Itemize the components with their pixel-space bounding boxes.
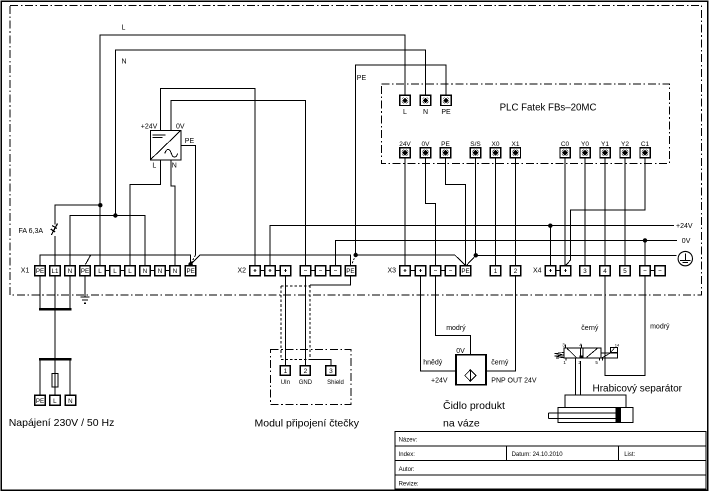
module terminal 2 — [300, 366, 310, 376]
svg-text:3: 3 — [562, 343, 565, 348]
PE bus diagonal into X3:PE — [467, 255, 476, 265]
terminal X1 L @100 — [95, 266, 105, 276]
junction dot X1:11 PE — [188, 262, 192, 266]
link X1 L5-L6 — [105, 270, 110, 272]
svg-text:L: L — [113, 268, 117, 275]
wire X4:1 from +24V bus — [549, 226, 551, 266]
svg-text:L: L — [128, 268, 132, 275]
wire X1:4 PE to earth — [84, 276, 86, 297]
svg-text:PLC Fatek FBs–20MC: PLC Fatek FBs–20MC — [500, 102, 597, 113]
svg-text:1: 1 — [284, 368, 288, 375]
svg-text:N: N — [158, 268, 162, 275]
wire PSU 0V to X2:4 — [171, 101, 306, 266]
svg-text:5: 5 — [595, 360, 598, 365]
svg-text:PE: PE — [81, 268, 89, 275]
terminal X3 1 @495.5 — [490, 266, 500, 276]
wire X1:1 PE down to connector — [39, 276, 41, 308]
terminal X2 - @320.4 — [315, 266, 325, 276]
link X1 N8-N9 — [150, 270, 155, 272]
terminal X4 + @565.3 — [560, 266, 570, 276]
svg-text:1: 1 — [494, 268, 498, 275]
link X1 N9-N10 — [165, 270, 170, 272]
cylinder body — [558, 408, 616, 423]
wire PLC PE(bottom) to X3:PE — [446, 158, 466, 266]
svg-text:1: 1 — [563, 360, 566, 365]
junction dot X2:PE — [354, 253, 358, 257]
link X1 L6-L7 — [120, 270, 125, 272]
PLC terminal N (top row) — [420, 95, 430, 105]
svg-text:L: L — [152, 162, 156, 169]
wire PLC Y0 to X4 box3 — [584, 158, 586, 266]
terminal X4 4 @605 — [600, 266, 610, 276]
cylinder piston — [616, 407, 621, 423]
svg-text:Index:: Index: — [399, 452, 416, 458]
wire plug N — [69, 361, 71, 396]
svg-text:X0: X0 — [492, 141, 500, 148]
svg-text:Hrabicový separátor: Hrabicový separátor — [593, 383, 683, 394]
svg-text:Y2: Y2 — [621, 141, 629, 148]
svg-text:X4: X4 — [533, 268, 542, 275]
svg-text:černý: černý — [491, 359, 509, 366]
terminal X3 - @435.5 — [430, 266, 440, 276]
cable shield (dashed) right — [309, 285, 311, 360]
wire PSU PE to PE bus — [181, 145, 196, 255]
wire X4:6 from 0V bus — [644, 240, 646, 265]
svg-text:0V: 0V — [682, 238, 691, 245]
title block row line 1 — [395, 445, 706, 447]
PE bus mid segment — [191, 255, 351, 266]
svg-text:N: N — [68, 268, 72, 275]
svg-text:Čidlo produkt: Čidlo produkt — [443, 399, 505, 412]
svg-text:na váze: na váze — [443, 417, 480, 429]
junction dot X3:PE/SS — [474, 253, 478, 257]
link X2 1-2 — [260, 270, 265, 272]
svg-text:N: N — [173, 268, 177, 275]
link X3 1-2 — [410, 270, 415, 272]
svg-text:PE: PE — [346, 268, 354, 275]
terminal X2 - @305.4 — [300, 266, 310, 276]
wire X1:2 L1 down to connector — [54, 276, 56, 308]
terminal X4 3 @585 — [580, 266, 590, 276]
plug terminal L — [50, 395, 60, 405]
svg-text:GND: GND — [299, 380, 313, 386]
svg-text:PE: PE — [186, 268, 194, 275]
svg-text:2: 2 — [304, 368, 308, 375]
svg-text:Název:: Název: — [399, 438, 418, 444]
terminal X2 PE @350.4 — [345, 266, 355, 276]
cylinder rod — [549, 413, 617, 418]
bus +24V — [270, 226, 674, 266]
svg-text:2: 2 — [514, 268, 518, 275]
junction dot 0V/X4:6 — [643, 238, 647, 242]
valve left cell arrow — [567, 349, 576, 358]
wire PLC 24V to X3:1 — [404, 158, 406, 266]
cable shield (dashed) left — [280, 286, 282, 360]
terminal X4 - @645 — [640, 266, 650, 276]
PE bus diagonal into X2:PE — [352, 255, 356, 265]
svg-text:24V: 24V — [399, 141, 411, 148]
svg-text:FA 6,3A: FA 6,3A — [19, 228, 44, 235]
svg-text:PE: PE — [36, 268, 44, 275]
svg-text:4: 4 — [603, 268, 607, 275]
plug terminal N — [65, 395, 75, 405]
pneumatic tube right — [580, 361, 582, 395]
wire PLC X0 to X3 box1 — [495, 158, 497, 266]
terminal X1 PE @85 — [80, 266, 90, 276]
svg-text:N: N — [122, 59, 127, 66]
svg-text:3: 3 — [329, 368, 333, 375]
svg-text:+24V: +24V — [431, 378, 448, 385]
svg-text:PNP OUT 24V: PNP OUT 24V — [491, 378, 537, 385]
svg-text:5: 5 — [623, 268, 627, 275]
link X4 1-2 — [556, 270, 561, 272]
svg-text:0V: 0V — [422, 141, 431, 148]
terminal X2 - @335.5 — [330, 266, 340, 276]
terminal X3 - @450.5 — [445, 266, 455, 276]
PLC enclosure (dash-dot) — [381, 84, 669, 164]
terminal X1 L @130 — [125, 266, 135, 276]
svg-text:hnědý: hnědý — [423, 359, 443, 366]
svg-text:3: 3 — [583, 268, 587, 275]
wire PLC C1 to X4:2 (jog) — [566, 158, 645, 266]
terminal X1 L @115 — [110, 266, 120, 276]
PE bus segment X2-X3 — [356, 255, 466, 265]
wire X2:PE to cable shield — [310, 276, 350, 286]
terminal X1 PE @40 — [35, 266, 45, 276]
link X3 3-4 — [441, 270, 446, 272]
wire plug PE — [39, 361, 41, 396]
wire X3:2 to sensor +24V (hnedy) — [420, 276, 456, 371]
valve solenoid (right) — [601, 353, 617, 358]
module enclosure (dash-dot) — [271, 350, 351, 405]
plug terminal PE — [35, 395, 46, 405]
svg-text:Datum: 24.10.2010: Datum: 24.10.2010 — [512, 452, 564, 458]
svg-text:C1: C1 — [641, 141, 650, 148]
svg-text:černý: černý — [581, 325, 599, 332]
svg-text:X1: X1 — [21, 268, 30, 275]
wire PSU +24V to X2:1 — [160, 88, 255, 265]
pneumatic tube left — [574, 358, 576, 395]
junction dot +24V/X4:1 — [548, 224, 552, 228]
wire L (mains phase from bus to PLC L) — [100, 35, 405, 266]
svg-text:14: 14 — [615, 342, 620, 347]
terminal X4 - @660 — [655, 266, 665, 276]
wire shield to module 3 — [310, 360, 331, 366]
fuse FA 6,3A — [51, 224, 58, 236]
wire L branch to fuse — [55, 205, 100, 224]
sensor symbol — [465, 370, 476, 381]
PLC terminal PE (top row) — [441, 95, 451, 105]
junction dot N bus — [113, 213, 117, 217]
PE bus right segment to earth — [476, 254, 677, 256]
svg-text:X1: X1 — [512, 141, 520, 148]
valve port ticks top — [566, 345, 582, 348]
title block outer — [395, 432, 706, 490]
terminal X2 + @270 — [265, 266, 275, 276]
wire PLC X1 to X3 box2 — [515, 158, 517, 266]
svg-text:Modul připojení čtečky: Modul připojení čtečky — [255, 417, 360, 429]
terminal X3 PE @465.5 — [460, 266, 470, 276]
terminal X1 N @160 — [155, 266, 165, 276]
power supply AC sine — [165, 149, 178, 157]
link X2 5-6 — [326, 270, 331, 272]
terminal X1 N @70 — [65, 266, 75, 276]
valve right cell arrow — [587, 348, 598, 357]
wire X1:3 N down to connector — [69, 276, 71, 308]
svg-text:Shield: Shield — [327, 380, 344, 386]
wire N branch right to X1:8 — [115, 216, 145, 266]
terminal X1 N @175 — [170, 266, 180, 276]
svg-text:PE: PE — [36, 398, 44, 405]
svg-text:Autor:: Autor: — [399, 467, 415, 473]
wire X4:4 to valve solenoid (cerny) — [605, 276, 645, 376]
PE bus diagonal into X1:4 — [85, 255, 90, 265]
cabinet boundary (dash-dot) — [10, 5, 701, 295]
link X2 2-3 — [275, 270, 280, 272]
wire PLC Y2 to X4 box5 — [624, 158, 626, 266]
connector bar lower — [39, 358, 72, 361]
terminal X4 5 @625 — [620, 266, 630, 276]
svg-text:Y0: Y0 — [581, 141, 589, 148]
title block row line 2 — [395, 459, 706, 461]
terminal X3 + @420.3 — [415, 266, 425, 276]
power supply U1 box — [150, 130, 181, 159]
wire PE from PLC top to PE bus — [356, 65, 446, 255]
cable shield (dashed) bottom — [281, 359, 310, 361]
PLC terminal L (top row) — [400, 95, 410, 105]
wire sensor PNP out to X3 box2 (cerny) — [486, 276, 516, 371]
terminal X4 + @550.3 — [545, 266, 555, 276]
PE bus left segment — [40, 255, 191, 266]
svg-text:L: L — [53, 398, 57, 405]
svg-text:X2: X2 — [238, 268, 247, 275]
svg-text:L: L — [403, 109, 407, 116]
plug fuse body — [52, 373, 58, 387]
svg-text:Y1: Y1 — [601, 141, 609, 148]
svg-text:0V: 0V — [176, 123, 185, 130]
title block col line 2 — [618, 446, 620, 460]
link X2 4-5 — [311, 270, 316, 272]
terminal X3 + @405 — [400, 266, 410, 276]
sensor B1 box — [456, 355, 486, 385]
svg-text:N: N — [68, 398, 72, 405]
svg-text:N: N — [172, 162, 177, 169]
wire plug L with fuse — [54, 361, 56, 396]
svg-text:0V: 0V — [456, 348, 465, 355]
connector bar upper — [39, 308, 72, 311]
title block row line 3 — [395, 474, 706, 476]
title block col line 1 — [506, 446, 508, 460]
svg-text:PE: PE — [461, 268, 469, 275]
terminal X3 2 @515.5 — [510, 266, 520, 276]
bus 0V — [336, 240, 678, 265]
cable shield (dashed) top — [281, 285, 310, 287]
link X4 6-7 — [650, 270, 655, 272]
svg-text:+24V: +24V — [141, 123, 158, 130]
svg-text:PE: PE — [441, 109, 451, 116]
wire X2:3 to module 1 (Uin) — [284, 276, 286, 366]
terminal X1 N @145 — [140, 266, 150, 276]
svg-text:List:: List: — [624, 452, 635, 458]
terminal X1 L1 @55 — [50, 266, 60, 276]
wire X2:4 to module 2 (GND) — [304, 276, 306, 366]
svg-text:N: N — [143, 268, 147, 275]
svg-text:modrý: modrý — [650, 324, 670, 331]
power supply DC symbol — [153, 134, 166, 136]
svg-text:PE: PE — [185, 138, 195, 145]
cylinder top plate — [565, 395, 626, 408]
svg-text:S/S: S/S — [470, 141, 481, 148]
svg-text:+24V: +24V — [676, 223, 693, 230]
svg-text:UIn: UIn — [281, 380, 290, 386]
protective earth symbol (right) — [678, 251, 692, 265]
svg-text:C0: C0 — [561, 141, 570, 148]
svg-text:modrý: modrý — [446, 325, 466, 332]
svg-text:N: N — [423, 109, 428, 116]
wire N (mains neutral from bus to PLC N) — [115, 50, 425, 216]
svg-text:Revize:: Revize: — [399, 482, 419, 488]
valve port ticks bottom — [566, 358, 603, 360]
wire PSU N to X1:10 — [171, 160, 175, 266]
svg-text:L1: L1 — [52, 268, 59, 275]
module terminal 3 — [326, 366, 336, 376]
wire PLC 0V to X3:3 — [426, 158, 436, 266]
valve spring (left) — [555, 352, 564, 358]
svg-text:PE: PE — [441, 141, 450, 148]
valve pilot box — [610, 347, 617, 352]
wire PLC Y1 to X4 box4 — [604, 158, 606, 266]
junction dot L bus — [98, 203, 102, 207]
wire PSU L to X1:7 — [130, 160, 160, 266]
wire PLC C0 to X4:2 — [564, 158, 566, 266]
cylinder right cap — [621, 408, 633, 423]
wire PLC S/S to PE bus — [475, 158, 477, 256]
terminal X2 + @285.4 — [280, 266, 290, 276]
svg-text:PE: PE — [357, 75, 367, 82]
earth ground symbol (X1:4) — [80, 297, 89, 303]
wire N branch left to X1:3 — [70, 216, 115, 266]
wire X3:3 to sensor 0V (modry) — [436, 276, 471, 355]
svg-text:L: L — [122, 25, 126, 32]
svg-text:Napájení 230V / 50 Hz: Napájení 230V / 50 Hz — [9, 417, 115, 429]
module terminal 1 — [280, 366, 290, 376]
svg-text:X3: X3 — [388, 268, 397, 275]
connector link wire — [54, 311, 56, 358]
terminal X2 + @254.8 — [250, 266, 260, 276]
valve body — [564, 348, 601, 358]
terminal X1 PE @190.6 — [185, 266, 195, 276]
valve middle verticals — [580, 348, 583, 358]
svg-text:L: L — [98, 268, 102, 275]
